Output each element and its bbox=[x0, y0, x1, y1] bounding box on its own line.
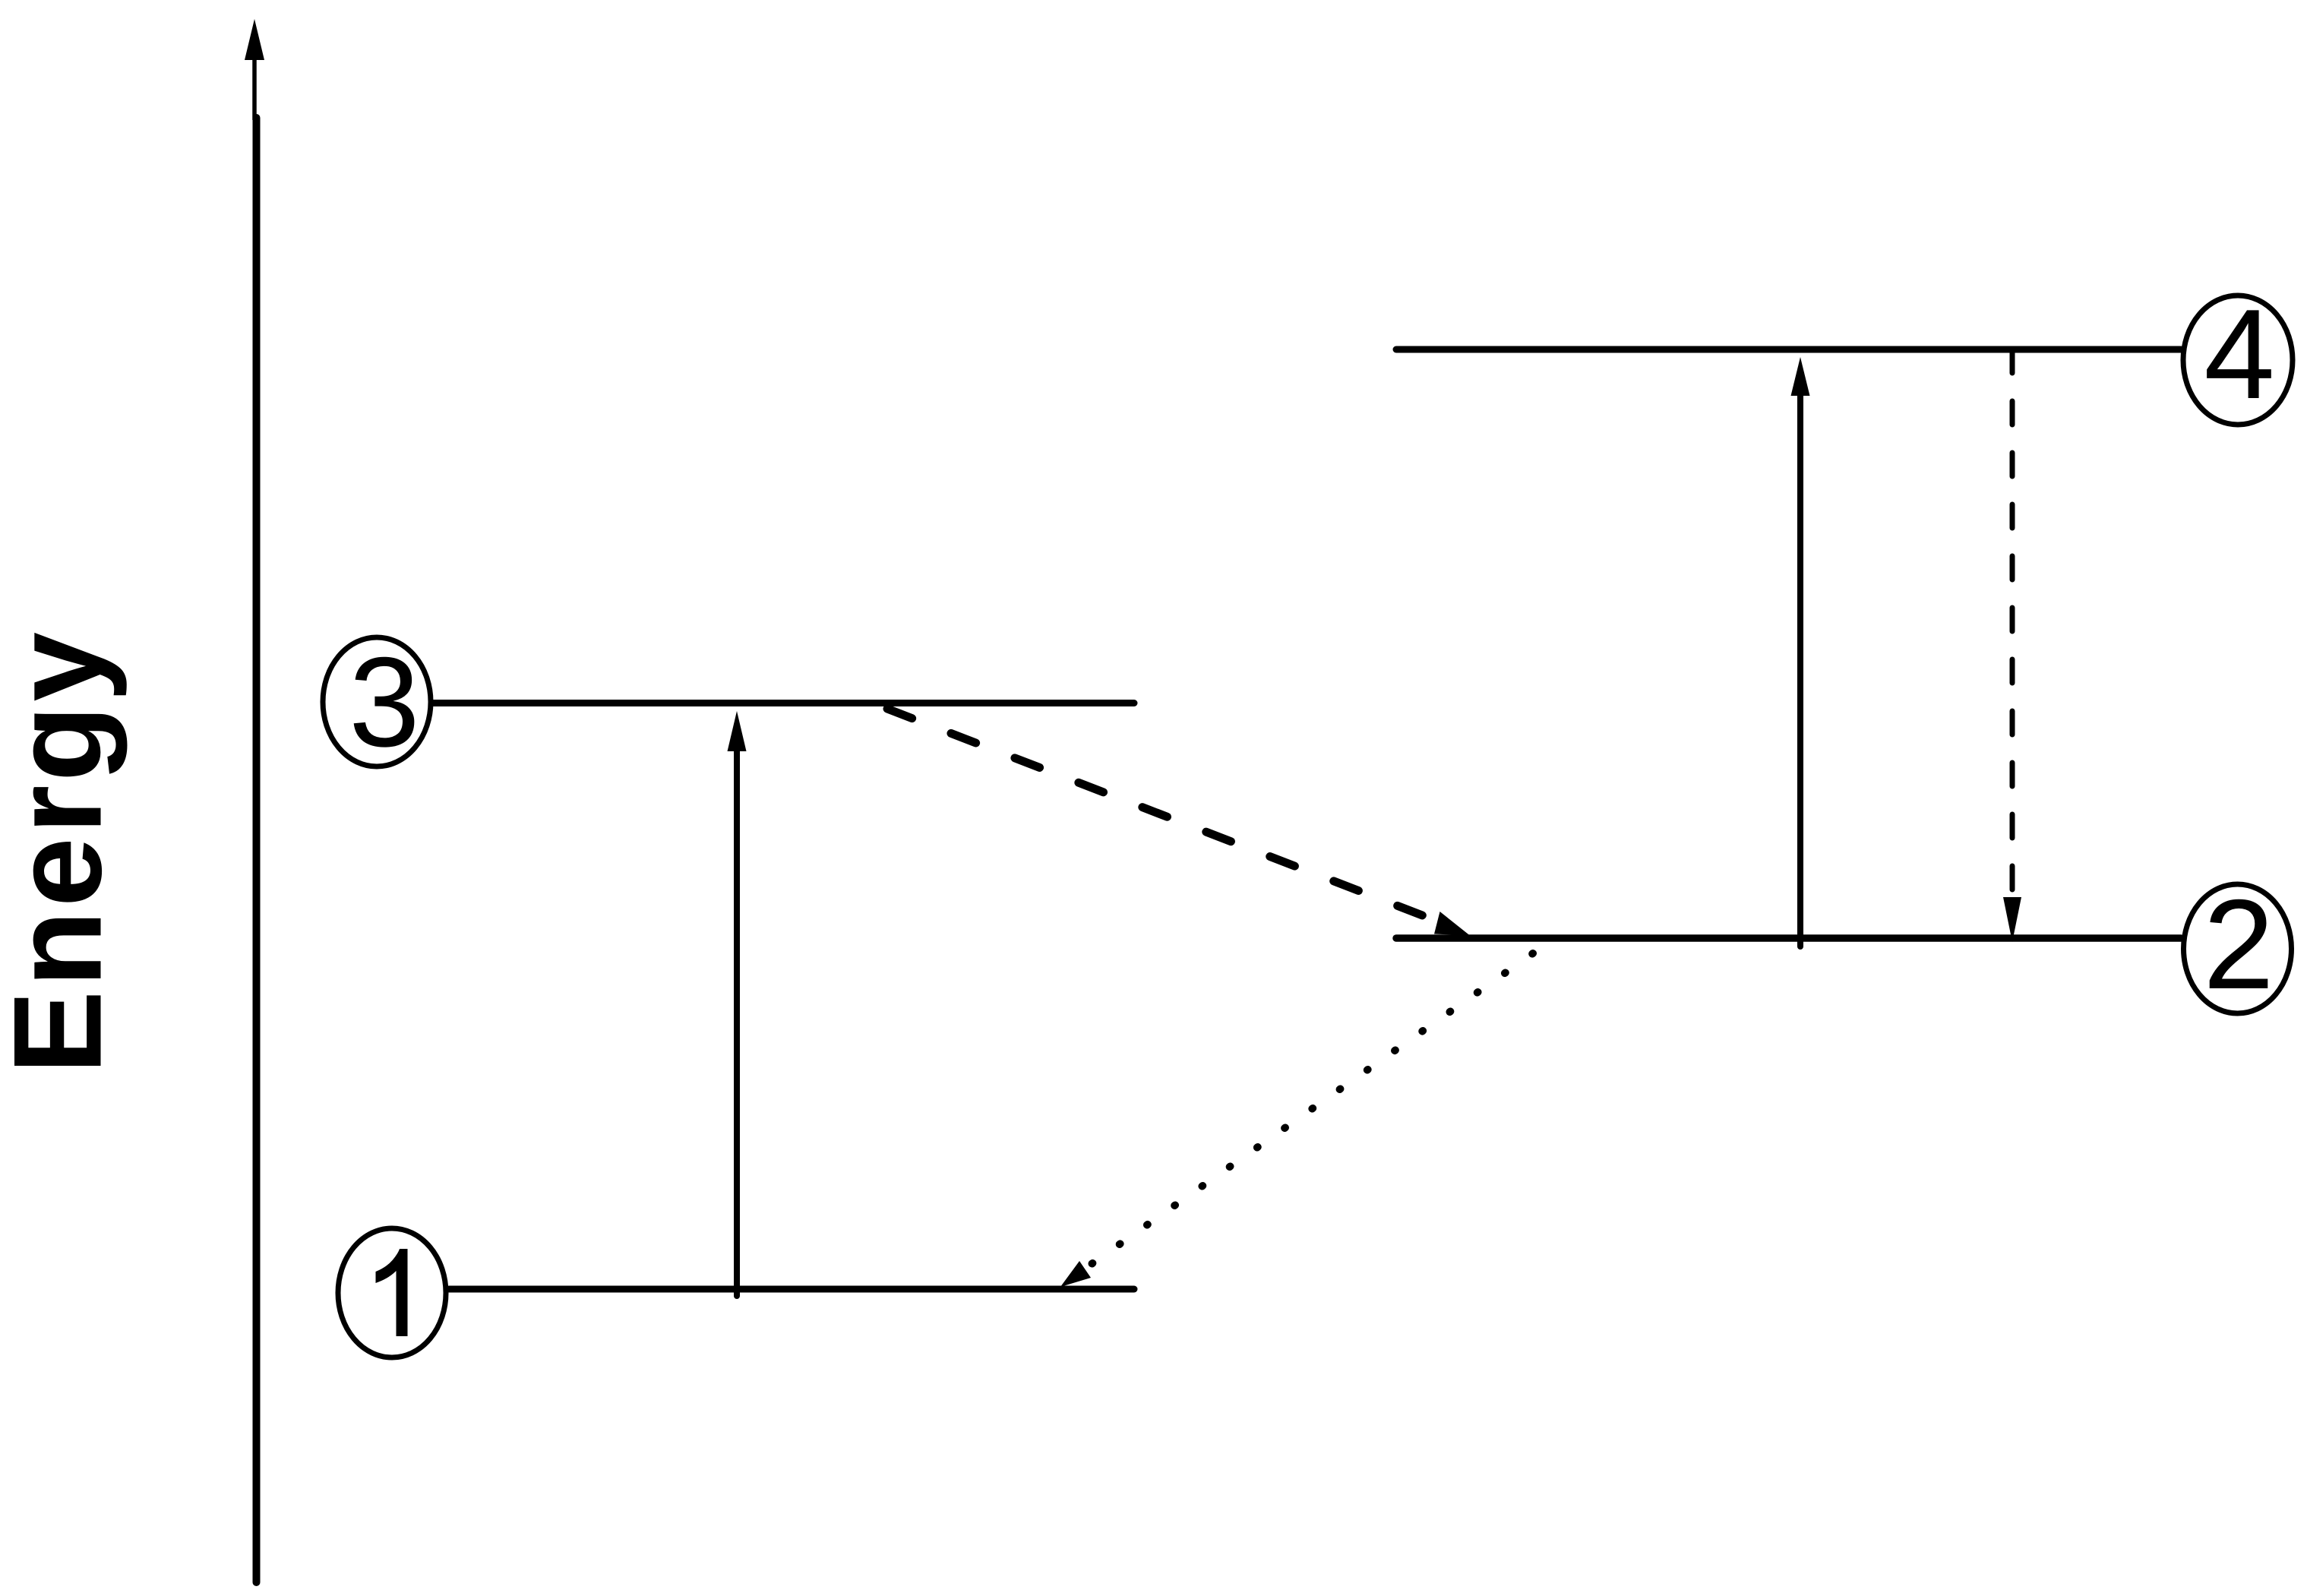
svg-text:4: 4 bbox=[2204, 283, 2274, 425]
svg-text:Energy: Energy bbox=[0, 632, 128, 1074]
level 2 line bbox=[1396, 934, 2181, 942]
energy axis bbox=[253, 118, 261, 1582]
pump arrow 2 to 4 shaft bbox=[1797, 395, 1803, 947]
level 1 label bbox=[376, 1249, 408, 1336]
svg-text:2: 2 bbox=[2203, 873, 2274, 1016]
level 3 circle bbox=[323, 637, 431, 766]
pump arrow 2 to 4 head bbox=[1791, 357, 1810, 396]
energy axis arrowhead bbox=[245, 19, 264, 60]
dashed decay arrow 3 to 2 line bbox=[887, 709, 1434, 920]
level 1 circle bbox=[338, 1228, 446, 1357]
dotted decay arrow 2 to 1 line bbox=[1089, 953, 1533, 1266]
dashed decay arrow 4 to 2 head bbox=[2003, 897, 2021, 942]
level 1 line bbox=[449, 1286, 1134, 1293]
pump arrow 1 to 3 shaft bbox=[734, 751, 740, 1296]
level 4 line bbox=[1396, 346, 2181, 353]
dashed decay arrow 4 to 2 line bbox=[2010, 349, 2015, 895]
level 2 circle bbox=[2184, 884, 2292, 1013]
dashed decay arrow 3 to 2 head bbox=[1434, 912, 1470, 936]
energy axis arrow shaft bbox=[252, 55, 257, 120]
level 3 line bbox=[433, 700, 1134, 706]
svg-text:3: 3 bbox=[349, 630, 419, 773]
level 4 circle bbox=[2183, 295, 2293, 425]
pump arrow 1 to 3 head bbox=[728, 711, 747, 751]
dotted decay arrow 2 to 1 head bbox=[1060, 1261, 1091, 1287]
